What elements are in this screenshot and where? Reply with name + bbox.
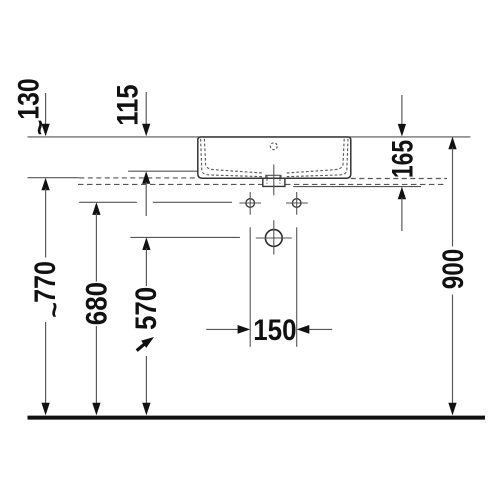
washbasin outline	[198, 137, 351, 178]
inner basin hidden contour left inner	[204, 139, 263, 173]
dimension 570 line upper part with up arrowhead	[142, 237, 150, 250]
svg-text:130: 130	[11, 78, 45, 119]
svg-text:115: 115	[110, 84, 143, 125]
dimension ~130 upper line	[45, 93, 47, 126]
label 115	[110, 84, 143, 125]
floor line	[28, 416, 486, 420]
svg-text:900: 900	[436, 249, 470, 290]
dimension 150 left extension line	[249, 227, 251, 346]
inner depth reference line (115 target)	[128, 170, 198, 172]
label ~770	[28, 261, 70, 318]
inner basin hidden contour right outer	[285, 139, 348, 177]
label 570	[129, 287, 162, 330]
680 reference line	[79, 201, 232, 203]
svg-text:~: ~	[25, 120, 55, 136]
dimension 570 line lower part with down arrowhead	[145, 356, 147, 405]
drain outlet crosshair	[256, 220, 292, 254]
dimension 115 down arrowhead	[142, 124, 150, 137]
dimension 165 lower up arrowhead	[398, 187, 406, 200]
dimension ~130 down arrowhead	[41, 124, 49, 137]
dimension 115 lower counter arrow	[142, 171, 150, 184]
label 150	[253, 313, 296, 346]
wall line solid left segment	[28, 177, 80, 179]
right mounting hole	[292, 199, 301, 208]
lower dashed reference line	[78, 183, 445, 185]
wall line dashed right segment	[351, 178, 447, 180]
svg-text:770: 770	[28, 261, 62, 303]
570 reference line	[130, 236, 240, 238]
dimension 115 upper line	[145, 92, 147, 126]
svg-text:570: 570	[129, 287, 162, 330]
left mounting hole	[246, 199, 255, 208]
right lower solid reference line (165 target)	[293, 186, 421, 188]
dimension 900 line upper part with up arrowhead	[448, 137, 456, 150]
drain flange	[266, 175, 281, 178]
svg-text:165: 165	[385, 140, 419, 178]
right mounting hole crosshair	[286, 192, 308, 215]
inner basin hidden contour right inner	[285, 139, 344, 173]
label 900	[436, 249, 470, 290]
label ~130	[11, 78, 55, 135]
dimension 150 left arrow	[206, 325, 250, 334]
dimension 680 line upper part with up arrowhead	[92, 202, 100, 215]
svg-text:150: 150	[253, 313, 296, 346]
drain hidden verticals	[267, 176, 280, 184]
label 165	[385, 140, 419, 178]
drain outlet circle	[265, 230, 282, 247]
svg-text:680: 680	[80, 282, 113, 325]
dimension ~770 line upper part with up arrowhead	[41, 178, 49, 191]
dimension ~770 line lower part with down arrowhead	[45, 322, 47, 405]
dimension 165 upper line	[401, 95, 403, 126]
inner basin hidden contour left outer	[201, 139, 264, 177]
dimension 165 down arrowhead	[398, 124, 406, 137]
left mounting hole crosshair	[239, 192, 261, 215]
dimension 150 right extension line	[296, 227, 298, 346]
dimension 150 right arrow	[297, 325, 333, 334]
direction arrow symbol	[137, 337, 154, 351]
dimension 680 line lower part with down arrowhead	[95, 326, 97, 405]
dimension 900 line lower part with down arrowhead	[452, 295, 454, 406]
label 680	[80, 282, 113, 325]
wall line dashed middle segment	[79, 177, 198, 179]
svg-text:~: ~	[40, 302, 70, 318]
faucet hole (dashed circle)	[270, 143, 277, 150]
centerline	[273, 165, 275, 196]
drain body below basin	[263, 178, 285, 186]
top reference line (rim level)	[28, 136, 471, 138]
